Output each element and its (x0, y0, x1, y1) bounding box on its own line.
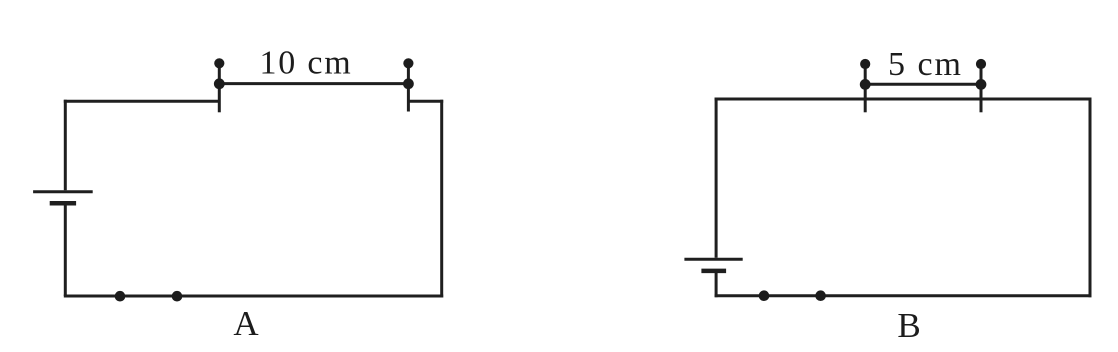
circuit B: right junction dot (976, 79, 987, 90)
circuit B: left terminal dot (860, 59, 870, 69)
circuit A: bottom node dot 1 (115, 291, 126, 302)
svg-text:5 cm: 5 cm (888, 46, 963, 83)
circuit A: top wire left segment (64, 100, 220, 103)
circuit B: left terminal stub (864, 64, 867, 112)
circuit B: bottom wire (715, 294, 1092, 297)
circuit B: left junction dot (860, 79, 871, 90)
circuit A: right junction dot (403, 78, 414, 89)
battery B: short plate (-) (701, 269, 726, 274)
circuit B: right terminal dot (976, 59, 986, 69)
circuit B: right terminal stub (980, 64, 983, 112)
battery B: long plate (+) (684, 258, 742, 261)
circuit B: bottom node dot 1 (759, 290, 770, 301)
circuit B: top wire (715, 98, 1092, 101)
circuit A: left terminal stub (218, 63, 221, 112)
svg-text:B: B (897, 306, 920, 345)
circuit A: bottom node dot 2 (172, 291, 183, 302)
circuit A: left junction dot (214, 78, 225, 89)
battery A: short plate (-) (50, 201, 76, 206)
circuit B: 5 cm wire segment (865, 83, 981, 86)
circuit B: left side wire upper (to battery) (715, 98, 718, 258)
circuit B: left side wire lower (from battery) (715, 271, 718, 297)
battery A: long plate (+) (33, 190, 93, 193)
circuit A: top wire right segment (408, 100, 443, 103)
circuit A: 10 cm wire segment (219, 82, 408, 85)
svg-text:10 cm: 10 cm (259, 45, 352, 82)
circuit A: bottom wire (64, 295, 443, 298)
circuit A: right terminal stub (407, 63, 410, 111)
circuit B: right side wire (1089, 98, 1092, 298)
circuit A: left side wire upper (to battery) (64, 100, 67, 190)
svg-text:A: A (233, 304, 259, 343)
circuit A: left side wire lower (from battery) (64, 203, 67, 296)
circuit A: right terminal dot (403, 58, 413, 68)
circuit A: right side wire (440, 100, 443, 298)
circuit A: left terminal dot (214, 58, 224, 68)
circuit B: bottom node dot 2 (815, 290, 826, 301)
